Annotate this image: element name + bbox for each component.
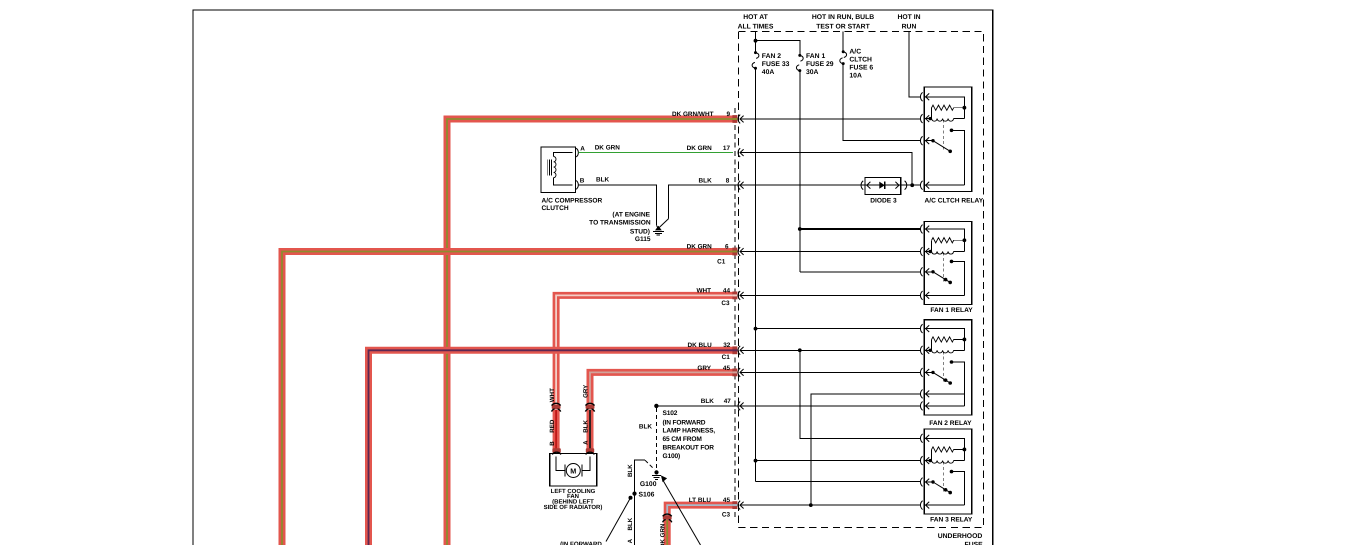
svg-text:CLUTCH: CLUTCH [542,205,569,212]
wire LT BLU 45 to FAN 3 relay [741,504,921,506]
svg-text:C3: C3 [722,511,731,518]
svg-text:FUSE: FUSE [965,542,984,545]
svg-text:DK GRN/WHT: DK GRN/WHT [672,111,714,118]
connector pin DK GRN 6 [732,248,737,256]
page border frame [193,10,993,545]
svg-text:RED: RED [549,419,556,433]
svg-text:FUSE 33: FUSE 33 [762,61,790,68]
connector pin DK GRN/WHT 9 [732,115,737,123]
wire BLK 8 branch to connector [669,185,742,218]
wire FAN 1 fuse column [799,71,801,272]
svg-text:(IN FORWARD: (IN FORWARD [560,541,602,545]
wire DK GRN 6 to FAN 1 relay [741,251,921,253]
underhood fuse block dashed outline [739,32,984,528]
svg-text:LT BLU: LT BLU [689,497,712,504]
svg-text:DK GRN: DK GRN [595,144,621,151]
svg-text:S102: S102 [663,410,678,417]
wire BLK 47 to FAN 2 relay [741,405,921,407]
fuse FAN 1 FUSE 29 30A [798,54,801,57]
battery feed wire to fuses [755,32,757,53]
wire LT BLU branch to FAN 2 relay pin 4 [811,394,921,505]
wire FAN 1 fuse to relay pin 1 (heavy) [800,228,921,230]
ground G100 [654,470,658,474]
A/C compressor clutch box [541,147,575,192]
svg-text:(IN FORWARD: (IN FORWARD [663,419,706,426]
wire DK GRN 6 highlighted [282,252,733,545]
svg-text:8: 8 [726,178,730,185]
svg-text:HOT IN: HOT IN [897,14,920,21]
svg-text:TEST OR START: TEST OR START [816,23,870,30]
svg-text:A: A [627,538,634,543]
svg-text:B: B [549,441,556,446]
wire DK GRN fan 2 feed highlighted [664,520,671,545]
fuse A/C CLTCH FUSE 6 10A [842,50,845,53]
svg-text:45: 45 [723,365,731,372]
ignition feed wire to A/C fuse [842,32,844,52]
svg-text:9: 9 [726,111,730,118]
svg-text:G115: G115 [635,236,651,243]
svg-text:WHT: WHT [696,287,711,294]
wire DK GRN/WHT 9 highlighted [447,119,733,545]
in-line connector LT BLU/DK GRN [663,515,672,519]
svg-text:LAMP HARNESS,: LAMP HARNESS, [663,428,716,435]
svg-text:C1: C1 [722,354,731,361]
wire FAN 2 fuse to FAN 3 relay pin 2 [756,460,921,462]
svg-text:65 CM FROM: 65 CM FROM [663,436,703,443]
svg-text:BLK: BLK [701,398,715,405]
ignition feed wire HOT IN RUN [909,32,921,97]
svg-text:G100: G100 [640,481,657,488]
wire WHT 44 to FAN 1 relay [741,294,921,296]
ground G115 [655,226,662,231]
wire BLK S106 to G100 [635,460,646,493]
clutch pin A [576,148,578,157]
svg-text:STUD): STUD) [630,228,650,235]
motor entry connector B [552,448,560,452]
wire BLK S102 to G100 dashed [655,408,657,469]
svg-text:HOT AT: HOT AT [743,14,768,21]
svg-text:ALL TIMES: ALL TIMES [738,23,774,30]
wire BLK clutch B to ground [579,185,657,225]
wire DK GRN clutch A [579,152,733,154]
connector pin BLK 47 [738,402,740,411]
splice S106 [632,492,636,496]
wire BLK fan ground highlighted [587,410,594,453]
svg-text:47: 47 [724,398,732,405]
fuse FAN 2 FUSE 33 40A [754,51,757,54]
in-line connector GRY/BLK [586,405,595,409]
motor symbol [556,457,565,471]
wire DK BLU branch to FAN 3 relay pin 1 [800,350,921,438]
svg-text:FAN 2: FAN 2 [762,53,781,60]
svg-text:A/C COMPRESSOR: A/C COMPRESSOR [542,198,603,205]
svg-text:A: A [580,145,585,152]
wire A/C fuse column to relay pin 3 [843,64,920,141]
svg-text:RUN: RUN [902,23,917,30]
svg-text:10A: 10A [849,73,862,80]
wire RED fan feed highlighted [553,410,560,453]
connector pin BLK 8 [738,181,740,190]
svg-text:A: A [583,440,590,445]
svg-text:44: 44 [723,287,731,294]
svg-text:DK GRN: DK GRN [660,523,667,545]
leader to S106 [629,496,633,500]
svg-text:DK BLU: DK BLU [688,342,713,349]
in-line connector WHT/RED [552,405,561,409]
wire GRY 45 to FAN 2 relay [741,371,921,373]
relay FAN 1 RELAY [924,222,971,305]
wire DK GRN/WHT inside block [741,118,921,120]
svg-text:G100): G100) [663,453,681,460]
svg-text:30A: 30A [806,69,819,76]
svg-text:FAN 2 RELAY: FAN 2 RELAY [929,420,972,427]
clutch pin B [576,181,578,190]
connector pin DK BLU 32 [732,346,737,354]
svg-text:17: 17 [723,145,731,152]
connector face dashed line [734,108,736,520]
svg-text:M: M [570,466,576,475]
wire GRY 45 highlighted [590,372,733,404]
wire FAN 2 fuse column [755,68,757,481]
svg-text:WHT: WHT [549,388,556,402]
svg-text:BLK: BLK [596,177,610,184]
clutch coil [554,157,556,178]
svg-text:C1: C1 [717,259,726,266]
svg-text:32: 32 [723,342,731,349]
relay FAN 3 RELAY [924,429,971,514]
svg-text:S106: S106 [639,491,655,498]
diode DIODE 3 [865,177,901,194]
svg-text:FAN 1 RELAY: FAN 1 RELAY [930,307,973,314]
svg-text:GRY: GRY [583,384,590,398]
svg-text:DK GRN: DK GRN [687,244,713,251]
connector pin WHT 44 [732,292,737,300]
relay A/C CLTCH RELAY [924,87,971,192]
svg-text:40A: 40A [762,69,775,76]
svg-text:FUSE 29: FUSE 29 [806,61,834,68]
wire BLK below S106 [634,494,636,545]
svg-text:TO TRANSMISSION: TO TRANSMISSION [589,219,651,226]
left cooling fan motor box [550,453,597,486]
svg-text:GRY: GRY [697,365,711,372]
svg-text:6: 6 [725,244,729,251]
wire DK GRN 17 to diode node [741,153,913,186]
motor entry connector A [586,448,594,452]
svg-text:DIODE 3: DIODE 3 [870,197,897,204]
svg-text:BLK: BLK [699,178,713,185]
svg-text:A/C CLTCH RELAY: A/C CLTCH RELAY [925,197,984,204]
svg-text:C3: C3 [721,300,730,307]
svg-text:BLK: BLK [627,464,634,477]
svg-text:45: 45 [723,497,731,504]
wire DK BLU 32 highlighted [369,350,733,545]
svg-text:BLK: BLK [627,517,634,530]
wire LT BLU 45 highlighted [667,505,732,516]
svg-text:BLK: BLK [583,419,590,432]
svg-text:(AT ENGINE: (AT ENGINE [612,212,650,219]
leader arrow to G100 [663,480,701,545]
relay FAN 2 RELAY [924,320,971,415]
svg-text:A/C: A/C [849,49,861,56]
svg-text:B: B [580,178,585,185]
svg-text:BLK: BLK [639,423,653,430]
splice S102 [654,404,658,408]
svg-text:DK GRN: DK GRN [687,145,713,152]
svg-text:BREAKOUT FOR: BREAKOUT FOR [663,445,715,452]
svg-text:CLTCH: CLTCH [849,57,872,64]
connector pin DK GRN 17 [738,148,740,157]
wire DK BLU 32 to FAN 2 relay [741,349,921,351]
wire FAN 2 fuse to relay pin 1 [756,328,921,330]
connector pin GRY 45 [732,369,737,377]
svg-text:FAN 3 RELAY: FAN 3 RELAY [930,516,973,523]
svg-text:UNDERHOOD: UNDERHOOD [938,533,983,540]
svg-text:FUSE 6: FUSE 6 [849,65,873,72]
connector pin LT BLU 45 [732,501,737,509]
clutch internal wiring [554,153,573,157]
svg-text:SIDE OF RADIATOR): SIDE OF RADIATOR) [544,504,603,511]
wire WHT 44 highlighted [556,295,733,404]
svg-text:FAN 1: FAN 1 [806,53,825,60]
wire FAN 1 fuse to relay pin 3 [800,271,921,273]
svg-text:HOT IN RUN, BULB: HOT IN RUN, BULB [812,14,874,21]
